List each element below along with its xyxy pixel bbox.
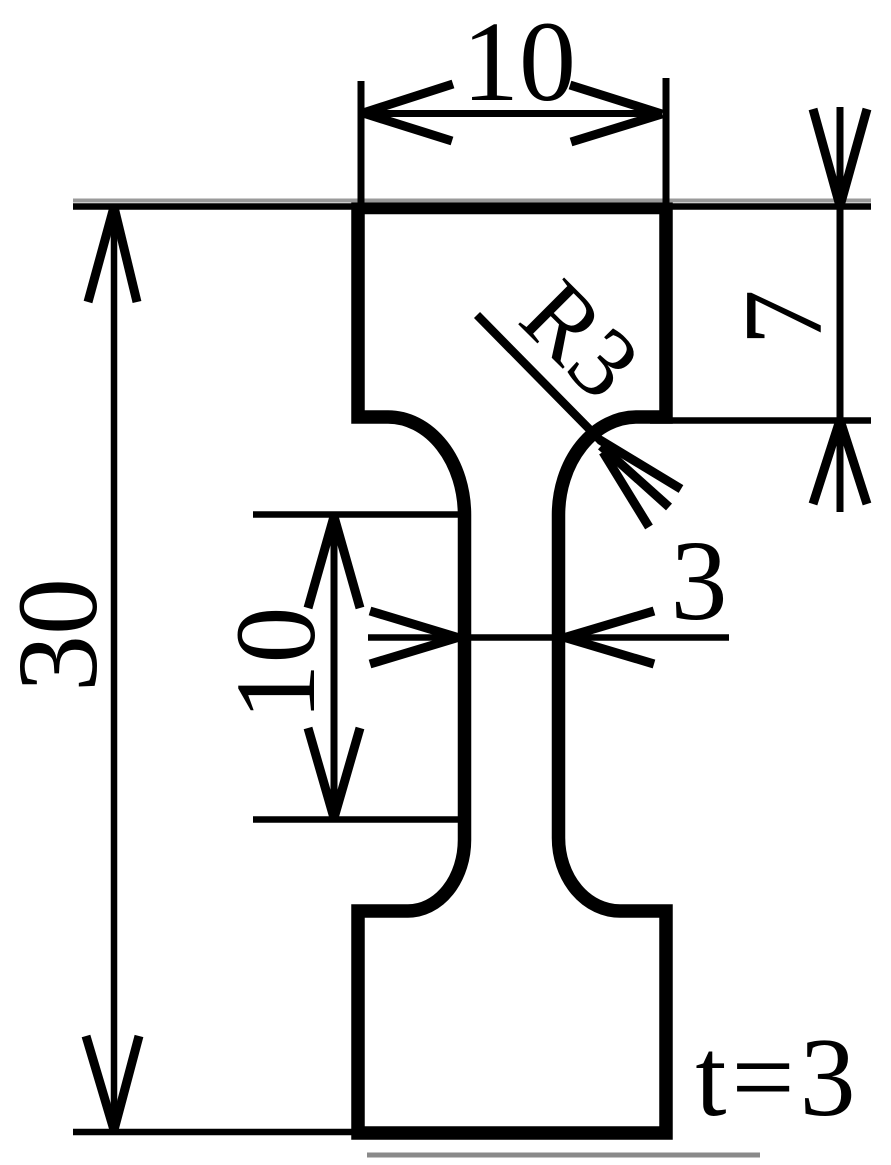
leader line 3 left	[368, 634, 458, 641]
dimension line gauge 10	[331, 517, 338, 818]
arrow 30 top	[88, 207, 137, 302]
bottom extension line (30 datum)	[73, 1129, 360, 1136]
extension line 10 top left	[358, 81, 365, 207]
leader line 3 right	[565, 634, 729, 641]
arrow 3 left	[370, 611, 458, 664]
shadow line under bottom edge	[367, 1153, 760, 1158]
top extension line halo	[73, 199, 871, 203]
arrow 3 right	[565, 611, 654, 664]
svg-text:t=3: t=3	[695, 1016, 860, 1140]
arrow 7 bottom	[813, 420, 867, 504]
arrow gauge 10 top	[308, 517, 360, 609]
extension line 10 top right	[663, 78, 670, 212]
svg-text:3: 3	[671, 517, 728, 644]
dimension line 3 across neck	[464, 634, 559, 641]
leader line R3	[477, 315, 601, 441]
svg-text:7: 7	[722, 290, 846, 346]
specimen outline	[358, 208, 666, 1134]
top extension line (30/7 datum)	[73, 203, 871, 210]
svg-text:10: 10	[212, 607, 339, 721]
extension line 7 bottom	[650, 417, 871, 424]
arrow 10 top left	[363, 84, 453, 141]
arrow gauge 10 bottom	[308, 728, 360, 818]
arrow R3 fan	[600, 440, 681, 527]
svg-text:10: 10	[462, 0, 576, 125]
arrow 30 bottom	[86, 1036, 139, 1130]
dimension line 7	[837, 107, 844, 512]
svg-text:30: 30	[0, 578, 121, 692]
arrow 7 top	[813, 109, 867, 206]
dimension line 30	[111, 208, 118, 1130]
arrow 10 top right	[570, 85, 662, 142]
extension line gauge 10 top	[253, 511, 462, 518]
extension line gauge 10 bottom	[253, 816, 462, 823]
dimension line 10 top	[363, 110, 662, 117]
